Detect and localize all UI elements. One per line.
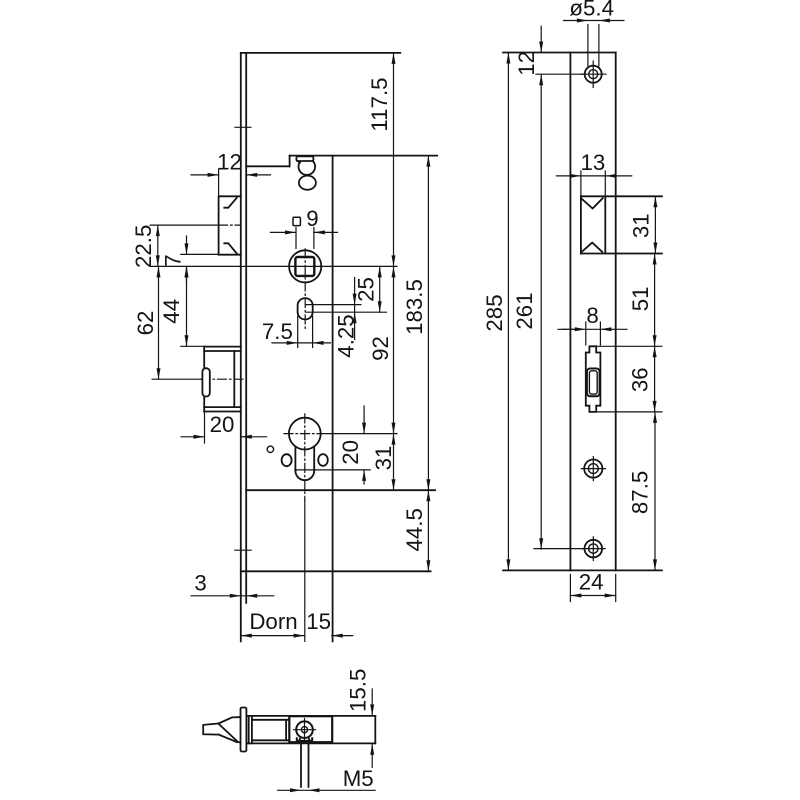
dimension 4.25 outside arrows <box>353 278 357 340</box>
dimension 44 line <box>185 266 189 346</box>
svg-text:25: 25 <box>354 277 379 302</box>
label 87.5 <box>628 471 653 514</box>
latch plan: screw neck <box>299 737 309 741</box>
diameter 5.4 extension lines <box>588 25 599 67</box>
latch bottom extension for 7 <box>181 253 219 255</box>
label 7 <box>160 254 185 266</box>
cylinder slot right side <box>313 447 315 471</box>
svg-text:92: 92 <box>368 336 393 361</box>
latch plan: screw housing box <box>289 716 332 742</box>
svg-text:20: 20 <box>338 440 363 465</box>
label 15 <box>306 609 331 634</box>
faceplate edge view, right line <box>245 53 247 603</box>
label 44 <box>159 299 184 324</box>
dimension 183.5 line <box>426 156 430 491</box>
latch plan: fixing screw <box>294 719 316 742</box>
striker plate top edge + extensions <box>503 52 616 54</box>
roller seen in slot outer <box>587 369 600 397</box>
svg-text:4.25: 4.25 <box>333 314 358 357</box>
label 25 <box>354 277 379 302</box>
label 92 <box>368 336 393 361</box>
label 7.5 <box>262 319 293 344</box>
label square-9 symbol <box>293 217 300 225</box>
svg-text:13: 13 <box>580 150 605 175</box>
roller bolt axis line <box>152 378 243 380</box>
latch plan: wedge bottom <box>219 735 241 743</box>
latch plan: case right end <box>374 716 376 744</box>
roller bolt left edge <box>203 347 205 412</box>
striker plate right edge <box>615 53 617 571</box>
hub circle <box>289 250 321 282</box>
top hole axis extension <box>536 73 585 75</box>
dimension 51 line <box>653 254 657 347</box>
dimension M5 lines <box>278 788 376 792</box>
dimension 22.5 line <box>156 225 160 266</box>
roller slot contour <box>586 346 601 412</box>
svg-text:22.5: 22.5 <box>131 225 156 268</box>
svg-text:M5: M5 <box>343 766 374 791</box>
dimension 8 outside arrows <box>558 327 627 331</box>
label 31 plate <box>629 213 654 238</box>
roller bolt top extension for 44 <box>181 345 204 347</box>
top screw hole <box>581 61 607 88</box>
latch plan: screw bracket <box>297 738 312 741</box>
adjuster screw upper ball <box>299 162 316 175</box>
extension line 20 cylinder <box>295 469 370 471</box>
latch cutout bottom V notch <box>582 243 602 252</box>
dimension 117.5 line <box>392 53 396 267</box>
latch plan: nose <box>203 724 219 735</box>
label 117.5 <box>367 77 392 131</box>
label 285 <box>482 294 507 331</box>
dimension 12 outside arrows (plate) <box>539 26 543 52</box>
faceplate break tick lower <box>235 549 251 551</box>
lock case top edge + 183.5 extension <box>290 155 438 157</box>
dimension 36 line <box>653 346 657 412</box>
latch plan: wedge top <box>219 717 241 723</box>
latch bevel tick lower <box>224 243 237 254</box>
oval cutout below hub <box>298 298 313 319</box>
svg-text:44.5: 44.5 <box>402 508 427 551</box>
dimension 3 outside arrows <box>191 594 274 598</box>
dimension 20 (bolt) arrows <box>181 435 267 439</box>
latch cutout bottom edge + 31 extension <box>581 253 662 255</box>
dimension 7 outside arrows <box>185 236 189 284</box>
svg-text:87.5: 87.5 <box>628 471 653 514</box>
latch cutout top V notch <box>582 198 603 208</box>
bottom hole axis extension <box>534 548 585 550</box>
extension line 25/4.25 upper <box>306 304 361 306</box>
cylinder horizontal axis <box>284 433 397 435</box>
dimension 7.5 outside arrows <box>272 341 331 345</box>
svg-text:36: 36 <box>627 367 652 392</box>
svg-text:ø5.4: ø5.4 <box>569 0 614 21</box>
case bottom edge <box>246 489 435 491</box>
cylinder circle <box>289 418 321 450</box>
dimension 24 line <box>570 594 615 598</box>
label 44.5 <box>402 508 427 551</box>
svg-text:44: 44 <box>159 299 184 324</box>
faceplate break tick upper <box>235 126 251 128</box>
extension line 4.25 lower <box>306 311 386 313</box>
dimension 31 line (left view) <box>392 434 396 491</box>
svg-text:8: 8 <box>586 303 598 328</box>
striker plate bottom edge + extensions <box>503 569 662 571</box>
dimension 31 line (plate) <box>653 196 657 253</box>
latch cutout top edge + 31 extension <box>581 195 662 197</box>
label diameter 5.4 <box>569 0 614 21</box>
label 4.25 <box>333 314 358 357</box>
latch head outline <box>219 196 241 254</box>
faceplate edge view (3mm strip), left line <box>240 53 242 642</box>
svg-text:285: 285 <box>482 294 507 331</box>
label 36 <box>627 367 652 392</box>
adjuster screw shoulder left <box>297 161 300 163</box>
hub axis line (117.5/92 reference) <box>151 265 397 267</box>
svg-text:7.5: 7.5 <box>262 319 293 344</box>
dimension 13 arrows <box>556 174 631 178</box>
label 22.5 <box>131 225 156 268</box>
roller pin <box>202 368 209 396</box>
svg-text:20: 20 <box>210 412 235 437</box>
svg-text:24: 24 <box>579 570 604 595</box>
label Dorn <box>249 609 297 634</box>
roller bolt bottom lip <box>204 407 241 411</box>
dimension 62 line <box>157 266 161 379</box>
latch cutout left edge + 13 extension <box>580 171 582 254</box>
svg-text:117.5: 117.5 <box>367 77 392 131</box>
svg-text:12: 12 <box>217 149 242 174</box>
cylinder vertical axis <box>304 414 306 642</box>
dimension 5.4 outside arrows <box>564 19 624 23</box>
latch tip extension line for 12 <box>218 169 220 196</box>
roller bolt inner vertical <box>233 351 235 407</box>
oval width extension lines for 7.5 <box>298 316 313 348</box>
label 15.5 <box>345 669 370 712</box>
label 13 <box>580 150 605 175</box>
slot 8 extension lines <box>586 322 601 345</box>
faceplate bottom end + 44.5 extension <box>241 570 431 572</box>
hub square 9mm <box>295 257 314 276</box>
svg-text:183.5: 183.5 <box>402 279 427 335</box>
label 9 <box>306 206 318 231</box>
latch plan: wedge bevel edge <box>219 724 238 741</box>
svg-text:9: 9 <box>306 206 318 231</box>
dimension 25 line <box>378 266 382 312</box>
dimension Dorn line <box>241 634 305 638</box>
label 62 <box>133 311 158 336</box>
label 51 <box>628 286 653 311</box>
label 8 <box>586 303 598 328</box>
dimension 15 outside arrow <box>332 634 353 638</box>
faceplate top end cap + 117.5 extension line <box>241 52 400 54</box>
slot bottom extension for 36 <box>596 411 662 413</box>
label 261 <box>512 292 537 329</box>
svg-text:51: 51 <box>628 286 653 311</box>
svg-text:15: 15 <box>306 609 331 634</box>
latch bevel tick upper <box>224 198 236 208</box>
tiny hole left of cylinder <box>267 446 273 452</box>
roller seen in slot inner <box>589 371 597 394</box>
small hole right <box>318 454 328 466</box>
case top step vertical <box>289 156 291 167</box>
svg-text:12: 12 <box>514 51 539 76</box>
svg-text:31: 31 <box>629 213 654 238</box>
dimension 12 arrows <box>191 173 271 177</box>
plate break tick <box>562 328 577 330</box>
label 20 cylinder <box>338 440 363 465</box>
dimension square 9 arrows <box>270 230 337 234</box>
label 24 <box>579 570 604 595</box>
svg-text:15.5: 15.5 <box>345 669 370 712</box>
square-9 extension lines <box>296 228 314 249</box>
label 12 <box>217 149 242 174</box>
cylinder slot bottom arc <box>295 471 314 480</box>
dimension 87.5 line <box>653 412 657 571</box>
svg-text:3: 3 <box>194 570 206 595</box>
bottom screw hole <box>582 537 606 561</box>
striker plate left edge <box>569 53 571 571</box>
latch plan: faceplate bar <box>241 708 247 752</box>
dimension 15.5 outside arrows <box>370 689 374 767</box>
latch centre line / 22.5 extension <box>150 224 240 226</box>
dimension 261 line <box>539 74 543 549</box>
svg-text:7: 7 <box>160 254 185 266</box>
latch plan: case top edge <box>246 715 375 717</box>
label M5 <box>343 766 374 791</box>
adjuster screw shoulder right <box>313 161 314 163</box>
svg-text:31: 31 <box>371 446 396 471</box>
dimension 92 line <box>392 266 396 433</box>
svg-text:62: 62 <box>133 311 158 336</box>
internal mechanism line (long vertical) <box>332 156 334 642</box>
roller bolt top lip <box>204 347 241 351</box>
latch cutout right edge + 13 extension <box>604 171 606 254</box>
slot top extension for 36/51 <box>596 345 662 347</box>
plate 24 extension lines <box>570 575 615 602</box>
label 183.5 <box>402 279 427 335</box>
svg-text:261: 261 <box>512 292 537 329</box>
dimension 44.5 line <box>426 490 430 571</box>
latch plan: case bottom edge <box>246 742 375 744</box>
roller bolt extension for 20 <box>204 412 206 444</box>
middle screw hole <box>581 457 605 481</box>
adjuster screw cap <box>296 156 313 161</box>
label 20 bolt <box>210 412 235 437</box>
dimension 285 line <box>506 53 510 571</box>
hub vertical centre line <box>304 249 306 331</box>
adjuster screw lower ball <box>299 176 316 190</box>
label 31 left <box>371 446 396 471</box>
latch plan: M5 screw shank <box>301 742 309 787</box>
latch plan: guide bracket <box>249 716 252 744</box>
svg-text:Dorn: Dorn <box>249 609 297 634</box>
latch plan: spring housing <box>252 720 289 741</box>
label 12 plate <box>514 51 539 76</box>
small hole left <box>282 454 292 466</box>
label 3 <box>194 570 206 595</box>
cylinder slot left side <box>294 447 296 471</box>
case top lower step to faceplate <box>246 165 289 167</box>
dimension 20 cylinder outside arrows <box>362 406 366 484</box>
